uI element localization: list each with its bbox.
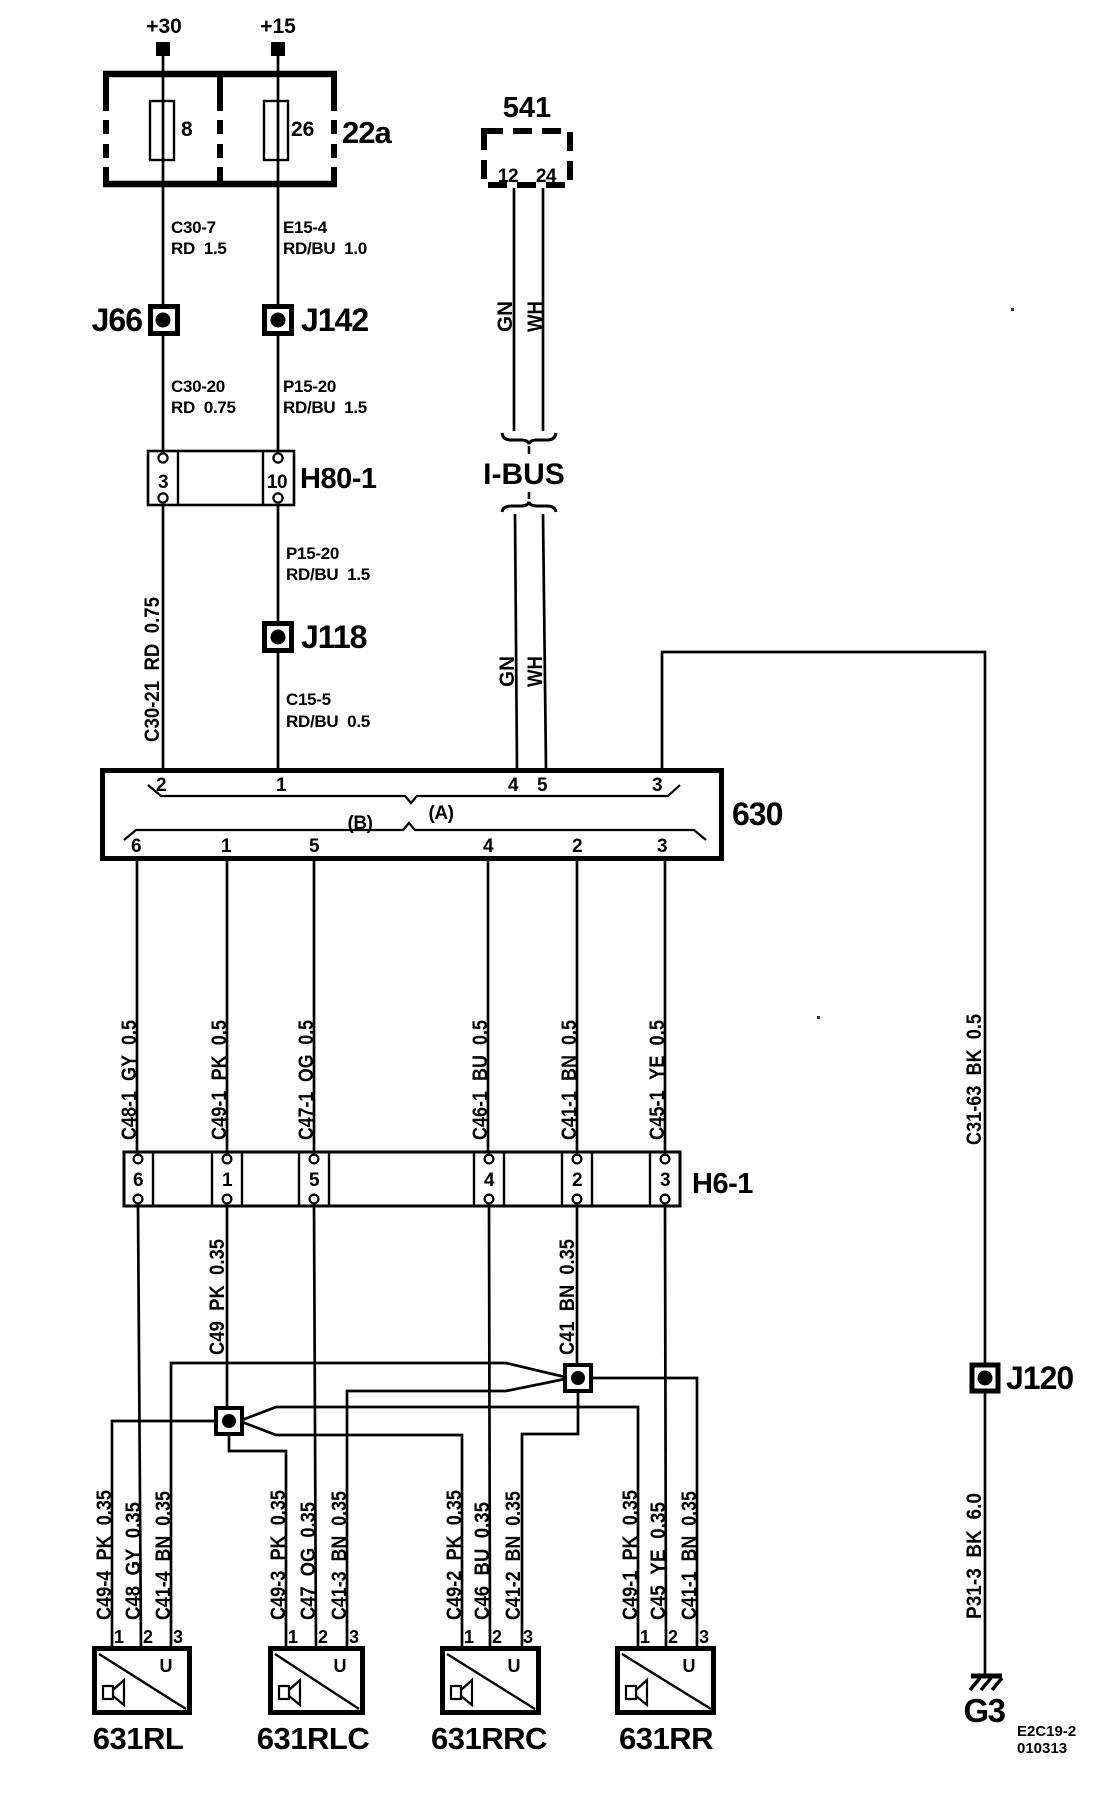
splice J142 [265, 302, 369, 338]
svg-text:22a: 22a [342, 115, 392, 150]
svg-text:2: 2 [492, 1627, 502, 1647]
svg-text:C49-2 PK 0.35: C49-2 PK 0.35 [443, 1490, 466, 1620]
svg-text:(A): (A) [429, 803, 454, 824]
630 pin A5 [537, 775, 548, 796]
svg-text:8: 8 [181, 118, 193, 141]
630 pin A3 [652, 775, 662, 796]
wire splice C41 to 631RRC pin3 [522, 1391, 578, 1649]
svg-text:H6-1: H6-1 [692, 1168, 753, 1200]
wire label C49 PK 0.35 [206, 1239, 229, 1355]
wire H6-1 pin3 to 631RR pin2 YE [665, 1206, 666, 1649]
connector H80-1 [148, 451, 377, 505]
631RL pin numbers 1 2 3 [114, 1627, 183, 1647]
splice C41 [565, 1365, 591, 1391]
svg-text:C15-5: C15-5 [286, 690, 331, 709]
svg-text:4: 4 [484, 1170, 495, 1191]
svg-text:C41-1 BN 0.5: C41-1 BN 0.5 [558, 1020, 581, 1140]
wire splice C49 to 631RR pin1 [242, 1407, 638, 1649]
svg-text:5: 5 [537, 775, 548, 796]
630 pin B5 [309, 836, 320, 857]
splice J66 [92, 302, 178, 338]
630 connector brace B [124, 813, 706, 840]
svg-text:C47-1 OG 0.5: C47-1 OG 0.5 [295, 1020, 318, 1140]
I-BUS brace upper [502, 433, 556, 454]
svg-text:631RRC: 631RRC [431, 1721, 547, 1756]
wire label GN upper [494, 301, 517, 332]
wire 630 B1 to H6-1 pin1 PK [226, 861, 229, 1152]
wire H6-1 pin6 to 631RL pin2 GY [138, 1206, 141, 1649]
wire 541 pin12 GN upper [513, 188, 516, 431]
svg-text:C31-63 BK 0.5: C31-63 BK 0.5 [963, 1014, 986, 1145]
svg-text:E2C19-2: E2C19-2 [1017, 1723, 1076, 1740]
wire label C49-2 PK 0.35 [443, 1490, 466, 1620]
note E2C19-2 [1017, 1723, 1076, 1757]
wire splice C49 to 631RRC pin1 [242, 1422, 462, 1649]
svg-text:C30-7: C30-7 [171, 218, 216, 237]
svg-text:GN: GN [496, 656, 519, 687]
terminal +15 [260, 15, 296, 56]
svg-text:4: 4 [483, 836, 494, 857]
svg-text:RD/BU 1.5: RD/BU 1.5 [283, 398, 367, 417]
speaker 631RL [93, 1649, 190, 1757]
svg-text:C48-1 GY 0.5: C48-1 GY 0.5 [118, 1020, 141, 1140]
svg-text:C41 BN 0.35: C41 BN 0.35 [556, 1239, 579, 1355]
splice J118 [265, 619, 367, 655]
svg-text:3: 3 [652, 775, 662, 796]
svg-text:1: 1 [114, 1627, 124, 1647]
svg-text:WH: WH [524, 301, 547, 332]
svg-text:3: 3 [523, 1627, 533, 1647]
wire label C30-7 RD 1.5 [171, 218, 227, 258]
svg-text:P15-20: P15-20 [286, 544, 339, 563]
svg-text:1: 1 [640, 1627, 650, 1647]
svg-text:631RR: 631RR [619, 1721, 713, 1756]
wire GN lower to 630 pin A4 [515, 514, 517, 768]
wire 630 B3 to H6-1 pin3 YE [664, 861, 667, 1152]
wire label WH lower [524, 656, 547, 687]
splice C49 [216, 1408, 242, 1434]
wire label C47-1 OG 0.5 [295, 1020, 318, 1140]
fuse 26 [264, 101, 314, 160]
wire 630 B5 to H6-1 pin5 OG [313, 861, 316, 1152]
I-BUS brace lower [502, 492, 556, 512]
wire label C41-1 BN 0.5 [558, 1020, 581, 1140]
svg-text:H80-1: H80-1 [300, 463, 377, 495]
wire label C47 OG 0.35 [297, 1502, 320, 1620]
svg-text:3: 3 [699, 1627, 709, 1647]
svg-text:010313: 010313 [1017, 1740, 1067, 1757]
630 pin B4 [483, 836, 494, 857]
svg-text:J120: J120 [1006, 1360, 1073, 1396]
wire H6-1 pin5 to 631RLC pin2 OG [314, 1206, 316, 1649]
svg-text:6: 6 [133, 1170, 143, 1191]
wire label C46-1 BU 0.5 [469, 1020, 492, 1140]
svg-text:3: 3 [660, 1170, 670, 1191]
svg-text:J142: J142 [301, 302, 368, 338]
630 connector brace A [148, 785, 680, 824]
svg-text:5: 5 [309, 1170, 320, 1191]
svg-text:3: 3 [173, 1627, 183, 1647]
svg-text:26: 26 [291, 118, 314, 141]
wire label C41-4 BN 0.35 [152, 1491, 175, 1620]
wire label C45 YE 0.35 [647, 1502, 670, 1620]
svg-text:10: 10 [267, 472, 287, 493]
wire label C46 BU 0.35 [471, 1502, 494, 1620]
wire splice C41 to 631RLC pin3 [347, 1379, 565, 1649]
wire splice C41 to 631RR pin3 [591, 1378, 697, 1649]
svg-text:3: 3 [158, 472, 168, 493]
630 pin B1 [221, 836, 232, 857]
svg-text:C46-1 BU 0.5: C46-1 BU 0.5 [469, 1020, 492, 1140]
wire H6-1 pin2 to splice C41 BN [576, 1206, 579, 1365]
wire H6-1 pin4 to 631RRC pin2 BU [489, 1206, 490, 1649]
H6-1 pin 4 [484, 1155, 495, 1204]
wire splice C49 to 631RL pin1 [112, 1421, 216, 1649]
svg-text:1: 1 [464, 1627, 474, 1647]
svg-text:C41-3 BN 0.35: C41-3 BN 0.35 [328, 1491, 351, 1620]
wire label C41-1 BN 0.35 [678, 1491, 701, 1620]
svg-text:C45 YE 0.35: C45 YE 0.35 [647, 1502, 670, 1620]
svg-text:C41-1 BN 0.35: C41-1 BN 0.35 [678, 1491, 701, 1620]
wire label P15-20 RD/BU 1.5 below H80-1 [286, 544, 370, 584]
svg-text:U: U [334, 1656, 347, 1676]
svg-text:RD/BU 0.5: RD/BU 0.5 [286, 712, 370, 731]
H6-1 pin 2 [572, 1155, 582, 1204]
connector H6-1 [124, 1152, 680, 1206]
wire label C49-3 PK 0.35 [267, 1490, 290, 1620]
svg-text:C49-1 PK 0.5: C49-1 PK 0.5 [208, 1020, 231, 1140]
630 pin B6 [131, 836, 141, 857]
svg-text:2: 2 [572, 1170, 582, 1191]
svg-text:1: 1 [222, 1170, 233, 1191]
svg-text:+15: +15 [260, 15, 296, 38]
scan speck [1011, 308, 1014, 311]
630 pin A1 [276, 775, 287, 796]
svg-text:GN: GN [494, 301, 517, 332]
H6-1 pin 5 [309, 1155, 320, 1204]
svg-text:4: 4 [508, 775, 519, 796]
wire label C15-5 RD/BU 0.5 [286, 690, 370, 731]
svg-text:P31-3 BK 6.0: P31-3 BK 6.0 [963, 1493, 986, 1619]
svg-text:C30-21 RD 0.75: C30-21 RD 0.75 [141, 597, 164, 742]
svg-text:C48 GY 0.35: C48 GY 0.35 [122, 1502, 145, 1620]
svg-text:J66: J66 [92, 302, 143, 338]
630 pin B3 [657, 836, 667, 857]
svg-text:630: 630 [732, 796, 783, 832]
svg-text:RD/BU 1.5: RD/BU 1.5 [286, 565, 370, 584]
svg-text:C49-3 PK 0.35: C49-3 PK 0.35 [267, 1490, 290, 1620]
svg-text:C41-2 BN 0.35: C41-2 BN 0.35 [502, 1491, 525, 1620]
svg-text:WH: WH [524, 656, 547, 687]
H6-1 pin 6 [133, 1155, 143, 1204]
wire label C49-4 PK 0.35 [93, 1490, 116, 1620]
svg-text:C49 PK 0.35: C49 PK 0.35 [206, 1239, 229, 1355]
svg-text:+30: +30 [146, 15, 182, 38]
svg-text:3: 3 [349, 1627, 359, 1647]
wire label C48-1 GY 0.5 [118, 1020, 141, 1140]
svg-text:P15-20: P15-20 [283, 377, 336, 396]
wire splice C41 to 631RL pin3 [171, 1363, 565, 1649]
scan speck [817, 1016, 820, 1019]
svg-text:J118: J118 [301, 619, 367, 655]
svg-text:6: 6 [131, 836, 141, 857]
speaker 631RR [618, 1649, 714, 1757]
wire label C30-21 RD 0.75 vertical [141, 597, 164, 742]
speaker 631RRC [431, 1649, 547, 1757]
svg-text:1: 1 [276, 775, 287, 796]
631RRC pin numbers 1 2 3 [464, 1627, 533, 1647]
ground G3 [963, 1676, 1005, 1729]
svg-text:C41-4 BN 0.35: C41-4 BN 0.35 [152, 1491, 175, 1620]
fuse 8 [150, 101, 193, 160]
speaker 631RLC [257, 1649, 370, 1757]
wire label GN lower [496, 656, 519, 687]
svg-text:U: U [508, 1656, 521, 1676]
svg-text:C30-20: C30-20 [171, 377, 225, 396]
node 541 [484, 92, 570, 187]
svg-text:U: U [160, 1656, 173, 1676]
wire H6-1 pin1 to splice C49 PK [226, 1206, 229, 1408]
wire label WH upper [524, 301, 547, 332]
svg-text:G3: G3 [963, 1692, 1005, 1729]
svg-text:C49-4 PK 0.35: C49-4 PK 0.35 [93, 1490, 116, 1620]
630 pin A4 [508, 775, 519, 796]
wire label C49-1 PK 0.35 [619, 1490, 642, 1620]
wire 630 B4 to H6-1 pin4 BU [487, 861, 490, 1152]
svg-text:1: 1 [288, 1627, 298, 1647]
svg-text:2: 2 [668, 1627, 678, 1647]
svg-text:3: 3 [657, 836, 667, 857]
svg-text:C45-1 YE 0.5: C45-1 YE 0.5 [646, 1020, 669, 1140]
wire label C48 GY 0.35 [122, 1502, 145, 1620]
wire 541 pin24 WH upper [542, 188, 545, 431]
svg-text:12: 12 [498, 166, 518, 187]
wire label C41-3 BN 0.35 [328, 1491, 351, 1620]
wire label C45-1 YE 0.5 [646, 1020, 669, 1140]
wire label C49-1 PK 0.5 [208, 1020, 231, 1140]
631RLC pin numbers 1 2 3 [288, 1627, 359, 1647]
wire label C41-2 BN 0.35 [502, 1491, 525, 1620]
wire 630 B6 to H6-1 pin6 GY [136, 861, 139, 1152]
terminal +30 [146, 15, 182, 56]
wire label P31-3 BK 6.0 [963, 1493, 986, 1619]
node I-BUS [483, 458, 565, 491]
svg-text:24: 24 [536, 166, 557, 187]
wire label C41 BN 0.35 [556, 1239, 579, 1355]
svg-text:RD 0.75: RD 0.75 [171, 398, 236, 417]
wire label C30-20 RD 0.75 [171, 377, 236, 417]
wire +15 to J142 to H80-1 to J118 to 630 pin A1 [277, 47, 280, 768]
H6-1 label [692, 1168, 753, 1200]
svg-text:2: 2 [318, 1627, 328, 1647]
amplifier 630 [103, 771, 783, 859]
svg-text:2: 2 [572, 836, 582, 857]
fuse box 22a [103, 71, 392, 187]
wire WH lower to 630 pin A5 [543, 514, 546, 768]
630 pin A2 [156, 775, 166, 796]
svg-text:C47 OG 0.35: C47 OG 0.35 [297, 1502, 320, 1620]
wire label E15-4 RD/BU 1.0 [283, 218, 367, 258]
svg-text:631RL: 631RL [93, 1721, 184, 1756]
H6-1 pin 1 [222, 1155, 233, 1204]
svg-text:E15-4: E15-4 [283, 218, 328, 237]
svg-text:1: 1 [221, 836, 232, 857]
wire label C31-63 BK 0.5 [963, 1014, 986, 1145]
svg-text:(B): (B) [348, 813, 373, 834]
svg-text:RD/BU 1.0: RD/BU 1.0 [283, 239, 367, 258]
svg-text:5: 5 [309, 836, 320, 857]
splice J120 [972, 1360, 1073, 1396]
H6-1 pin 3 [660, 1155, 670, 1204]
wire 630 B2 to H6-1 pin2 BN [576, 861, 579, 1152]
svg-text:C46 BU 0.35: C46 BU 0.35 [471, 1502, 494, 1620]
wire +30 to J66 to 630 pin A2 [162, 47, 165, 768]
svg-text:U: U [683, 1656, 696, 1676]
svg-text:2: 2 [143, 1627, 153, 1647]
svg-text:631RLC: 631RLC [257, 1721, 370, 1756]
wire 630 pin A3 to J120 to ground G3 [662, 652, 985, 1676]
wire splice C49 to 631RLC pin1 [229, 1434, 286, 1649]
svg-text:RD 1.5: RD 1.5 [171, 239, 227, 258]
630 pin B2 [572, 836, 582, 857]
631RR pin numbers 1 2 3 [640, 1627, 709, 1647]
svg-text:541: 541 [503, 92, 551, 124]
svg-text:C49-1 PK 0.35: C49-1 PK 0.35 [619, 1490, 642, 1620]
svg-text:I-BUS: I-BUS [483, 458, 565, 491]
wire label P15-20 RD/BU 1.5 [283, 377, 367, 417]
